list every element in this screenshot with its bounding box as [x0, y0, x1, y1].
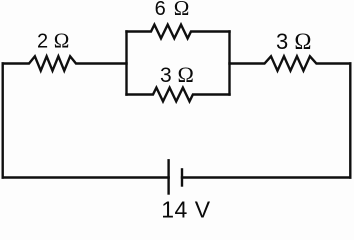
svg-text:3 Ω: 3 Ω — [160, 62, 194, 87]
svg-text:3 Ω: 3 Ω — [276, 29, 311, 54]
svg-text:2 Ω: 2 Ω — [37, 29, 69, 53]
svg-text:14 V: 14 V — [161, 197, 210, 219]
svg-text:6 Ω: 6 Ω — [155, 0, 190, 20]
